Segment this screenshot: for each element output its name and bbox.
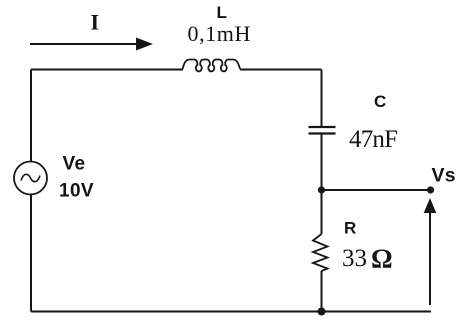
capacitor C1 bottom plate: [309, 132, 336, 134]
output arrow Vs shaft: [429, 211, 431, 305]
node junction dot middle: [318, 186, 325, 193]
resistor R1 zigzag: [313, 234, 328, 271]
current arrow I shaft: [30, 43, 139, 45]
wire output horizontal: [322, 189, 431, 191]
svg-text:47nF: 47nF: [349, 126, 397, 153]
node output terminal dot: [427, 186, 434, 193]
svg-text:L: L: [217, 3, 227, 22]
svg-text:Ve: Ve: [63, 154, 86, 175]
wire right vertical down to capacitor: [321, 70, 323, 127]
wire from resistor to bottom: [321, 271, 323, 312]
wire left vertical lower: [30, 195, 32, 312]
svg-text:C: C: [374, 92, 386, 111]
svg-text:R: R: [344, 219, 356, 238]
wire bottom horizontal: [31, 311, 431, 313]
svg-text:0,1mH: 0,1mH: [188, 21, 252, 46]
svg-text:Ω: Ω: [371, 244, 393, 274]
svg-text:I: I: [91, 10, 100, 35]
output arrow Vs head: [424, 198, 437, 213]
wire top horizontal left segment: [31, 69, 183, 71]
wire top horizontal right segment: [240, 69, 322, 71]
capacitor C1 top plate: [309, 126, 336, 128]
wire from capacitor to node: [321, 134, 323, 190]
svg-text:33: 33: [342, 245, 367, 272]
inductor L1 coil: [183, 60, 241, 72]
svg-text:Vs: Vs: [432, 165, 456, 187]
source Ve circle: [14, 162, 47, 195]
wire left vertical upper: [30, 70, 32, 162]
source Ve sine symbol: [21, 174, 40, 181]
svg-text:10V: 10V: [59, 181, 94, 202]
wire from node down to resistor: [321, 190, 323, 234]
node junction dot bottom: [318, 308, 326, 316]
current arrow I head: [136, 38, 153, 51]
